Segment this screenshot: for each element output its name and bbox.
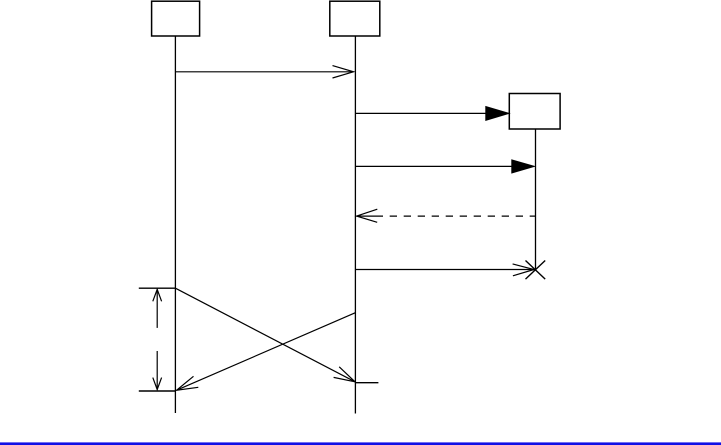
duration down arrow <box>153 351 162 390</box>
message arrow 1 A to B open head <box>175 66 353 78</box>
object box A <box>152 1 200 36</box>
object box C <box>509 94 560 130</box>
message arrow 2 B creates C filled head <box>355 107 509 121</box>
slanted message B to A <box>177 313 356 391</box>
tick mark top on lifeline A <box>139 287 176 289</box>
dashed return arrow C to B <box>357 209 536 222</box>
lifeline A <box>174 36 176 413</box>
destroy message arrow B to C open head <box>355 264 534 276</box>
lifeline B <box>354 36 356 414</box>
lifeline C <box>535 129 537 270</box>
tick mark bottom on lifeline A <box>139 390 176 392</box>
slanted message A to B <box>175 288 355 382</box>
destruction X on lifeline C <box>526 261 546 280</box>
object box B <box>330 1 380 36</box>
tick mark on lifeline B <box>356 382 379 384</box>
footer blue bar <box>0 442 721 445</box>
duration up arrow <box>153 289 162 328</box>
message arrow 3 B to C filled head <box>355 160 534 173</box>
